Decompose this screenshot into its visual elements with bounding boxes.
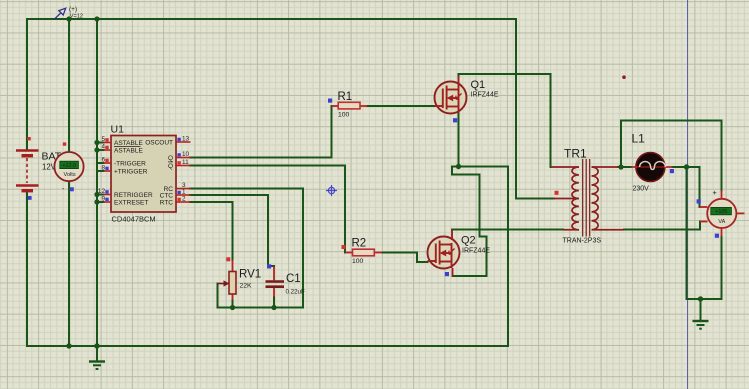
svg-text:4: 4	[101, 144, 105, 151]
wire source junction to ground bus	[459, 167, 509, 347]
svg-text:IRFZ44E: IRFZ44E	[462, 248, 490, 255]
transistor Q1 IRFZ44E	[435, 76, 467, 114]
label CD4047BCM	[112, 215, 156, 224]
wire RV1 bottom to timing bus	[232, 300, 234, 308]
wire secondary bottom to meter lower left	[624, 222, 700, 230]
svg-text:-TRIGGER: -TRIGGER	[114, 160, 146, 167]
wattmeter VA	[700, 191, 745, 237]
svg-text:Q2: Q2	[461, 235, 476, 247]
marker L1 right	[670, 169, 674, 173]
wire R2 to Q2 gate	[382, 253, 428, 263]
resistor R2	[345, 249, 382, 256]
wire pin6 connector	[97, 162, 104, 164]
svg-text:L1: L1	[632, 132, 646, 146]
wire secondary top to lamp	[618, 166, 631, 168]
label BAT1	[42, 151, 68, 163]
label C1	[286, 273, 301, 285]
svg-text:11: 11	[182, 159, 189, 166]
svg-text:RETRIGGER: RETRIGGER	[114, 192, 153, 199]
svg-text:+105: +105	[715, 209, 727, 215]
svg-text:230V: 230V	[633, 186, 650, 193]
marker R1 left	[328, 99, 332, 103]
wire pin12 connector	[97, 194, 104, 196]
label 100 (R1)	[338, 112, 350, 119]
svg-text:10: 10	[182, 151, 190, 158]
svg-text:TR1: TR1	[564, 147, 587, 161]
marker voltmeter bottom with minus	[62, 186, 74, 193]
wire RTC pin2 to RV1	[190, 202, 233, 260]
wire lamp node down to right ground	[686, 167, 688, 299]
transformer TR1 TRAN-2P3S	[551, 159, 624, 237]
svg-text:8: 8	[101, 165, 105, 172]
svg-text:R2: R2	[352, 238, 367, 250]
wire Q output pin10 to R1	[190, 106, 332, 158]
origin marker (blue compass)	[326, 185, 337, 196]
label R2	[352, 238, 367, 250]
svg-text:22K: 22K	[240, 283, 253, 290]
marker C1 top	[267, 264, 271, 268]
marker Q1 source	[453, 118, 457, 122]
pin names right	[145, 139, 173, 206]
svg-text:RV1: RV1	[239, 269, 261, 281]
svg-text:13: 13	[182, 136, 190, 143]
svg-text:CD4047BCM: CD4047BCM	[112, 215, 156, 224]
label IRFZ44E (Q1)	[471, 92, 499, 99]
svg-text:Q1: Q1	[471, 79, 486, 91]
svg-text:+TRIGGER: +TRIGGER	[114, 168, 148, 175]
capacitor C1	[266, 267, 285, 298]
svg-text:VA: VA	[718, 219, 725, 225]
label 230V	[633, 186, 650, 193]
label (+)	[69, 6, 77, 13]
svg-text:U1: U1	[111, 124, 125, 136]
wire battery branch vertical	[26, 19, 28, 346]
marker meter upper-left	[697, 199, 701, 203]
svg-text:ASTABLE: ASTABLE	[114, 140, 143, 147]
label V=12	[70, 14, 83, 20]
wire Q1 drain to transformer primary top	[459, 74, 551, 167]
power arrow marker (+) V=12	[54, 8, 66, 19]
wire source junction to Q2 source	[452, 167, 487, 277]
svg-text:+: +	[713, 188, 718, 197]
marker meter bottom	[715, 234, 719, 238]
label TR1	[564, 147, 587, 161]
svg-text:9: 9	[101, 196, 105, 203]
svg-text:RTC: RTC	[160, 199, 174, 206]
svg-text:100: 100	[338, 112, 350, 119]
label Q2	[461, 235, 476, 247]
label R1	[338, 91, 353, 103]
wire pin4 connector	[97, 149, 104, 151]
wire CTC pin1 to C1	[190, 195, 274, 266]
battery BAT1	[16, 151, 39, 191]
label RV1	[239, 269, 261, 281]
svg-text:R1: R1	[338, 91, 353, 103]
wire pin8 connector	[97, 170, 104, 172]
label Q1	[471, 79, 486, 91]
label TRAN-2P3S	[563, 238, 602, 245]
wire top +12V rail	[27, 18, 516, 20]
label 0.22uF	[286, 289, 305, 296]
pin numbers	[98, 136, 106, 203]
label plus sign (wattmeter)	[713, 188, 718, 197]
wire pin9 connector	[97, 201, 104, 203]
svg-text:C1: C1	[286, 273, 301, 285]
stray red dot	[622, 75, 626, 79]
wire IC supply vertical	[96, 19, 98, 346]
wire Q1 source down	[458, 113, 460, 167]
marker TR1 center tap	[555, 191, 559, 195]
pin end markers IC	[105, 138, 180, 201]
svg-text:0.22uF: 0.22uF	[286, 289, 305, 296]
lamp L1	[631, 153, 673, 182]
label 22K	[240, 283, 253, 290]
svg-text:+12.0: +12.0	[62, 163, 76, 169]
svg-text:6: 6	[101, 157, 105, 164]
svg-text:TRAN-2P3S: TRAN-2P3S	[563, 238, 602, 245]
ground (right, below meter)	[693, 299, 709, 329]
svg-text:CTC: CTC	[160, 192, 174, 199]
marker R2 left	[342, 245, 346, 249]
wire secondary top up to wattmeter plus	[621, 121, 722, 191]
pin names left	[114, 140, 153, 207]
svg-text:5: 5	[101, 136, 105, 143]
svg-text:100: 100	[352, 258, 364, 265]
svg-text:Volts: Volts	[64, 172, 76, 178]
wire meter bottom to right ground	[687, 237, 722, 300]
wire timing bus horizontal	[218, 307, 304, 309]
label 12V	[42, 163, 57, 172]
wire C1 bottom to timing bus	[273, 297, 275, 308]
marker Q2 source	[445, 272, 449, 276]
marker battery top	[27, 137, 30, 140]
potentiometer RV1	[218, 260, 237, 300]
marker RV1 top	[226, 257, 230, 261]
wire RC pin3 to timing bus	[190, 189, 303, 308]
ground (left, below bus)	[89, 346, 105, 369]
left pin stubs	[104, 143, 112, 203]
label 100 (R2)	[352, 258, 364, 265]
wire Q2 drain to transformer primary bottom	[452, 229, 563, 231]
wire pin5 connector	[97, 142, 104, 144]
svg-text:Q: Q	[168, 155, 173, 162]
wire lamp right to meter node	[673, 167, 700, 207]
label L1	[632, 132, 646, 146]
right pin stubs	[176, 142, 191, 202]
resistor R1	[332, 102, 368, 109]
wire voltmeter branch vertical	[68, 19, 70, 346]
wire R1 to Q1 gate	[368, 105, 435, 107]
svg-text:Q: Q	[168, 163, 173, 170]
svg-text:IRFZ44E: IRFZ44E	[471, 92, 499, 99]
label IRFZ44E (Q2)	[462, 248, 490, 255]
svg-text:EXTRESET: EXTRESET	[114, 199, 148, 206]
svg-text:V=12: V=12	[70, 14, 83, 20]
wire RV1 wiper to timing bus	[217, 284, 219, 308]
sheet border line (navy vertical)	[687, 0, 689, 389]
IC U1 CD4047BCM	[98, 136, 191, 213]
voltmeter (Volts)	[54, 152, 83, 181]
svg-text:(+): (+)	[69, 6, 77, 13]
svg-text:OSCOUT: OSCOUT	[145, 139, 173, 146]
wire +12V drop to transformer center tap	[516, 19, 554, 199]
label U1	[111, 124, 125, 136]
svg-text:ASTABLE: ASTABLE	[114, 147, 143, 154]
wire Qbar output pin11 to R2	[190, 166, 345, 253]
svg-text:2: 2	[182, 196, 186, 203]
svg-text:12: 12	[98, 188, 106, 195]
marker voltmeter top	[63, 142, 66, 145]
transistor Q2 IRFZ44E	[428, 230, 460, 277]
wire ground bus bottom	[27, 345, 508, 347]
svg-text:1: 1	[182, 189, 186, 196]
marker battery bottom	[28, 196, 32, 200]
